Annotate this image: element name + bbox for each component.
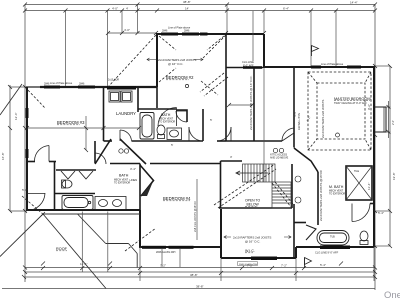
wall wic west (220, 209, 222, 258)
svg-text:TUB: TUB (330, 236, 335, 239)
stairs arrow (236, 171, 268, 175)
door bath1 (176, 111, 187, 122)
dimension line right (375, 5, 390, 291)
door wic-mbath wedge (306, 225, 316, 240)
bay window seat (375, 107, 386, 132)
wall hall angled east (120, 139, 146, 164)
svg-text:BEDROOM #2: BEDROOM #2 (166, 75, 194, 80)
dimension extension lines top (66, 5, 337, 183)
wall bedroom4 entry angled (140, 165, 154, 196)
bath2 tub (62, 196, 93, 210)
bath1 tub (140, 113, 154, 140)
svg-text:7'-2": 7'-2" (160, 263, 166, 267)
bedroom4 dashed roof arrow (22, 196, 156, 251)
wall stair-top south (226, 67, 263, 69)
bath2 vanity two sinks (95, 197, 126, 210)
wall landing west (253, 68, 255, 141)
svg-text:11'-4": 11'-4" (367, 183, 371, 190)
svg-text:TRAY CEILING AT 9'-0" AFF: TRAY CEILING AT 9'-0" AFF (334, 101, 367, 105)
wall master west angled (294, 148, 318, 172)
wall hall angled west (95, 139, 111, 164)
svg-text:3'-4": 3'-4" (130, 167, 136, 171)
svg-text:2'-0": 2'-0" (391, 120, 395, 125)
flag marker bottom (305, 258, 312, 269)
roof gable lines (0, 84, 140, 289)
svg-text:ROOF: ROOF (56, 247, 68, 251)
wall hall north right of door (217, 140, 226, 142)
svg-text:LAUNDRY: LAUNDRY (116, 111, 136, 116)
closet bifold doors (61, 171, 93, 179)
door hall2 (217, 127, 231, 141)
svg-text:5'-4": 5'-4" (378, 211, 384, 215)
wall laundry east (137, 87, 139, 112)
svg-text:Line of Plate above: Line of Plate above (50, 81, 73, 85)
window W1 (44, 86, 60, 89)
arrows rafters bedroom2 (147, 58, 291, 239)
svg-text:2846 GLASS 4DH: 2846 GLASS 4DH (156, 251, 176, 254)
flag marker top (312, 46, 319, 57)
window W8 (251, 257, 277, 261)
svg-text:2846: 2846 (79, 83, 85, 86)
wall right exterior (373, 66, 375, 247)
window W11 left wall (26, 149, 29, 158)
wall bath1 east angled (176, 110, 187, 122)
wall hall north master side (264, 140, 282, 142)
wall bedroom2 west lower (156, 87, 158, 108)
svg-text:2x10 RAFTERS 2x8 JOISTS @ 16": 2x10 RAFTERS 2x8 JOISTS @ 16" O.C. (249, 75, 253, 130)
fixtures: laundry counter dark (107, 86, 136, 90)
interior dim line bedroom3 horizontal (27, 116, 139, 150)
wall bath2 north (110, 163, 140, 165)
wall stair north (221, 160, 243, 162)
smoke detectors (119, 148, 284, 153)
wall stair south (219, 207, 292, 209)
shower X (346, 166, 372, 200)
wall wic east (295, 247, 297, 258)
svg-text:4'-0": 4'-0" (124, 28, 130, 32)
ceiling fan master (336, 133, 340, 137)
window W10 left wall (26, 108, 29, 118)
wall bedroom2 west (156, 34, 158, 87)
svg-text:CLG LINE: CLG LINE (242, 60, 254, 64)
mbath tub (317, 231, 349, 246)
svg-text:One: One (384, 290, 400, 300)
wall shower box (346, 166, 372, 200)
wall bath1 south (132, 140, 203, 142)
wall laundry-bath divider (138, 108, 176, 110)
wall wic east upper (293, 204, 295, 258)
svg-text:CLG LINE 9'-0" AFF: CLG LINE 9'-0" AFF (315, 251, 339, 255)
svg-text:BATH: BATH (119, 174, 129, 178)
svg-text:W.I.C.: W.I.C. (245, 249, 255, 253)
svg-text:Line of Plate above: Line of Plate above (321, 62, 344, 66)
dimension line left (10, 5, 27, 283)
door laundry (120, 130, 132, 142)
wall laundry south (104, 140, 113, 142)
wall bedroom4 north (150, 163, 221, 165)
svg-text:5'-4": 5'-4" (320, 263, 326, 267)
boxed window note wic (238, 262, 258, 266)
svg-text:8'-0" AFF: 8'-0" AFF (243, 64, 254, 68)
svg-text:7'-2": 7'-2" (281, 263, 287, 267)
svg-text:BELOW: BELOW (247, 203, 260, 207)
svg-text:2x10 RAFTERS 2x8 JOISTS @16"OC: 2x10 RAFTERS 2x8 JOISTS @16"OC (319, 169, 323, 221)
svg-text:4'-6": 4'-6" (293, 111, 297, 117)
svg-text:14'-4": 14'-4" (350, 0, 358, 4)
wall hall north center (226, 140, 264, 142)
svg-text:11'-4": 11'-4" (80, 262, 87, 266)
wall bedroom4 south (139, 246, 221, 248)
svg-text:19'-8": 19'-8" (392, 172, 396, 180)
svg-text:6'-4": 6'-4" (283, 7, 289, 11)
door header dark stair-top (243, 66, 262, 69)
wall mbath west (317, 172, 319, 225)
svg-text:16'-8": 16'-8" (1, 152, 5, 160)
washer dryer (109, 91, 132, 102)
wall left exterior (26, 87, 28, 210)
svg-text:TO EXTERIOR: TO EXTERIOR (329, 193, 345, 196)
stairs upper flight treads (243, 164, 276, 182)
wall mbath south (296, 246, 374, 248)
svg-text:38'-8": 38'-8" (190, 273, 198, 277)
svg-text:12'-4": 12'-4" (14, 112, 18, 120)
window W5 (311, 66, 321, 69)
bath1 toilet (157, 125, 165, 139)
svg-text:BEDROOM #4: BEDROOM #4 (163, 196, 191, 201)
wall bottom-left section (26, 209, 140, 211)
window W9 (320, 246, 350, 250)
window W4 (182, 33, 199, 36)
svg-text:2x10 HDR: 2x10 HDR (108, 79, 119, 82)
svg-text:BEDROOM #3: BEDROOM #3 (57, 120, 85, 125)
wall wic-mbath passage (294, 222, 306, 224)
svg-text:TO EXTERIOR: TO EXTERIOR (159, 121, 175, 124)
stair circled number 1 (295, 176, 301, 203)
wall bedroom4 west jog (139, 210, 141, 247)
svg-text:38'-8": 38'-8" (196, 285, 204, 289)
wall stair east (291, 164, 293, 208)
svg-text:9'-2": 9'-2" (367, 104, 371, 110)
window W6 (347, 66, 361, 69)
svg-text:@ 16" O.C.: @ 16" O.C. (245, 240, 260, 244)
window W3 (161, 33, 178, 36)
door closet bedroom3 (27, 193, 45, 211)
wall mbath mid jog (370, 203, 374, 205)
dimension extension lines right (374, 66, 391, 246)
door mbath (352, 204, 370, 222)
ceiling dashed lines bedroom2 (25, 35, 228, 108)
dimension lines top (25, 5, 375, 11)
svg-text:MASTER BEDROOM: MASTER BEDROOM (334, 97, 371, 101)
wall bedroom2 north (156, 33, 264, 35)
interior walls (27, 34, 374, 258)
wall stair west (220, 161, 222, 208)
interior dim line landing (229, 104, 253, 106)
door bedroom2 (158, 108, 177, 127)
svg-text:2x10 RAFTERS 2x8 JOISTS: 2x10 RAFTERS 2x8 JOISTS (321, 100, 325, 138)
dimension lines bottom (2, 268, 375, 289)
wall top-left section (26, 86, 157, 88)
mbath toilet (360, 231, 368, 245)
svg-text:@ 16" O.C.: @ 16" O.C. (168, 62, 183, 66)
label underlines (56, 80, 370, 253)
window W2 (78, 86, 95, 89)
note texts (44, 26, 367, 266)
dim line bedroom2 west (108, 32, 156, 34)
stairs dashed rails (214, 164, 293, 208)
wall landing east (293, 67, 295, 148)
wall stair east upper (263, 34, 265, 67)
window W4b (200, 33, 208, 36)
dim extension bedroom4 window (179, 249, 181, 267)
svg-text:2846: 2846 (162, 30, 168, 33)
svg-text:4'-0": 4'-0" (112, 6, 118, 10)
svg-text:TO EXTERIOR: TO EXTERIOR (114, 182, 130, 185)
wall bedroom3 south right (49, 161, 56, 163)
text room labels (56, 75, 371, 253)
door bedroom4 wedge (141, 182, 153, 197)
door master entry (282, 128, 294, 141)
svg-text:TILE: TILE (354, 170, 359, 173)
wall bath2 west (94, 141, 96, 163)
wall bath2 east (139, 164, 141, 211)
door bedroom3 (34, 146, 49, 162)
door bath2 (95, 153, 106, 164)
door hall-bath (189, 127, 203, 141)
bath1 vanity (167, 128, 182, 140)
ceiling fan bedroom2 (185, 84, 188, 87)
wall bedroom2 east (225, 34, 227, 141)
svg-text:M. BATH: M. BATH (329, 185, 344, 189)
wall closet north (56, 169, 96, 171)
tray ceiling master dashed (308, 72, 371, 150)
wall wic south (221, 257, 296, 259)
svg-text:2846 GLASS 4'DH: 2846 GLASS 4'DH (239, 263, 258, 266)
svg-text:LINEN: LINEN (130, 178, 138, 182)
svg-text:2x8 CLG JOISTS @16"OC: 2x8 CLG JOISTS @16"OC (193, 201, 197, 232)
svg-text:5'-0": 5'-0" (22, 188, 28, 192)
wall top-right section (263, 66, 375, 68)
stairs lower flight treads (272, 182, 291, 208)
svg-text:AND LID ABOVE: AND LID ABOVE (270, 157, 289, 160)
dimension extension lines bottom right (140, 247, 374, 281)
svg-text:14': 14' (185, 6, 189, 10)
ticks bedroom3 dims (25, 126, 141, 152)
wc toilet (62, 180, 73, 188)
interior dim line bedroom4 (196, 179, 198, 240)
svg-text:2846: 2846 (44, 83, 50, 86)
svg-text:BATH: BATH (161, 113, 171, 117)
svg-text:2x6 WALL B'DN: 2x6 WALL B'DN (298, 113, 301, 130)
wall laundry west (103, 88, 105, 141)
wall bedroom3 east (54, 161, 56, 210)
wall bedroom3 south (27, 161, 35, 163)
window W7 (142, 246, 166, 249)
svg-text:2846: 2846 (184, 30, 190, 33)
wall wc-tub divider (55, 193, 96, 195)
wall bath nook east (202, 109, 204, 141)
svg-text:38'-8": 38'-8" (183, 0, 191, 4)
